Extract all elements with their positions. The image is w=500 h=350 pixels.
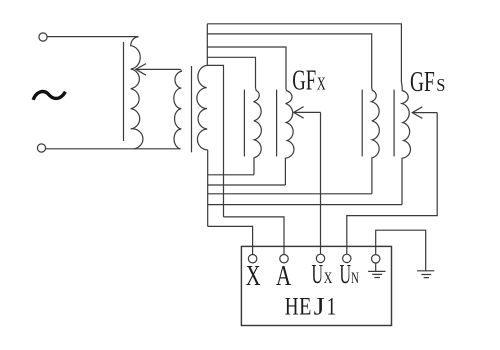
AC source tilde: [33, 92, 65, 100]
GFs left winding: [371, 89, 379, 194]
terminal X: [248, 255, 256, 263]
GFs mid core bar: [393, 90, 395, 157]
GFs left core bar: [361, 90, 363, 157]
svg-text:S: S: [436, 75, 445, 95]
node: secondary bottom vertical: [207, 150, 209, 227]
svg-text:GF: GF: [410, 67, 435, 98]
svg-text:X: X: [317, 74, 326, 94]
bus GFs-left bottom: [208, 193, 372, 195]
variac bar: [123, 42, 125, 141]
terminal UN: [343, 254, 351, 262]
wire Ux: [320, 112, 322, 254]
variac winding: [131, 37, 143, 149]
wire A: [224, 217, 285, 255]
variac tap arrow: [136, 68, 181, 70]
svg-text:GF: GF: [292, 66, 316, 97]
GFx right winding: [285, 89, 294, 185]
bus GFx-right bottom: [208, 184, 286, 186]
GFx arrow: [294, 111, 321, 113]
svg-text:1: 1: [327, 294, 337, 321]
svg-text:X: X: [324, 270, 333, 287]
svg-text:N: N: [351, 270, 359, 287]
wire X: [208, 226, 253, 254]
wire UN: [347, 113, 437, 255]
GFx mid core bar: [276, 90, 278, 157]
node: secondary top vertical: [206, 24, 208, 66]
AC source terminal bottom: [37, 144, 45, 152]
HEJ1 box: [241, 246, 391, 325]
terminal Ux: [316, 254, 324, 262]
AC source terminal top: [39, 33, 47, 41]
wire top source to variac: [47, 36, 138, 38]
svg-text:U: U: [312, 259, 324, 289]
GFs arrow: [412, 112, 437, 114]
bus line 1 top: [207, 24, 401, 82]
svg-text:H: H: [285, 294, 299, 321]
terminal A: [280, 255, 288, 263]
wire bottom source to transformer: [46, 148, 181, 150]
bus GFx-left bottom: [208, 174, 254, 176]
terminal earth: [372, 255, 380, 263]
svg-text:X: X: [246, 260, 261, 292]
GFs right winding: [401, 82, 410, 205]
GFx left core bar: [243, 90, 245, 157]
bus GFs-right bottom: [208, 204, 402, 206]
bus line 3: [207, 47, 286, 89]
branch secondary top to A-bus: [207, 65, 223, 217]
svg-text:U: U: [340, 259, 352, 289]
bus line 2: [207, 34, 371, 89]
right ground symbol: [417, 271, 434, 278]
T1 primary winding: [174, 69, 182, 148]
T1 core bar: [191, 66, 193, 152]
wire terminal-earth to right ground: [376, 230, 426, 271]
GFx left winding: [253, 89, 261, 175]
T1 secondary winding: [197, 65, 208, 149]
svg-text:A: A: [276, 260, 291, 292]
bus line 4: [207, 57, 255, 89]
svg-text:E: E: [299, 294, 311, 321]
terminal-earth ground symbol: [368, 263, 385, 278]
svg-text:J: J: [314, 294, 325, 321]
